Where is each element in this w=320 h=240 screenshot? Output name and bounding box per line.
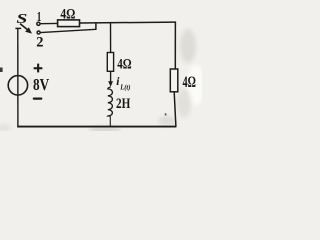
- svg-text:4Ω: 4Ω: [117, 57, 131, 73]
- svg-text:S: S: [16, 12, 27, 27]
- svg-text:4Ω: 4Ω: [60, 7, 75, 23]
- svg-text:1: 1: [37, 10, 42, 25]
- svg-text:2H: 2H: [116, 96, 131, 112]
- svg-text:2: 2: [36, 35, 43, 51]
- svg-text:L(t): L(t): [119, 83, 130, 91]
- svg-text:4Ω: 4Ω: [183, 74, 197, 91]
- svg-text:8V: 8V: [33, 75, 49, 94]
